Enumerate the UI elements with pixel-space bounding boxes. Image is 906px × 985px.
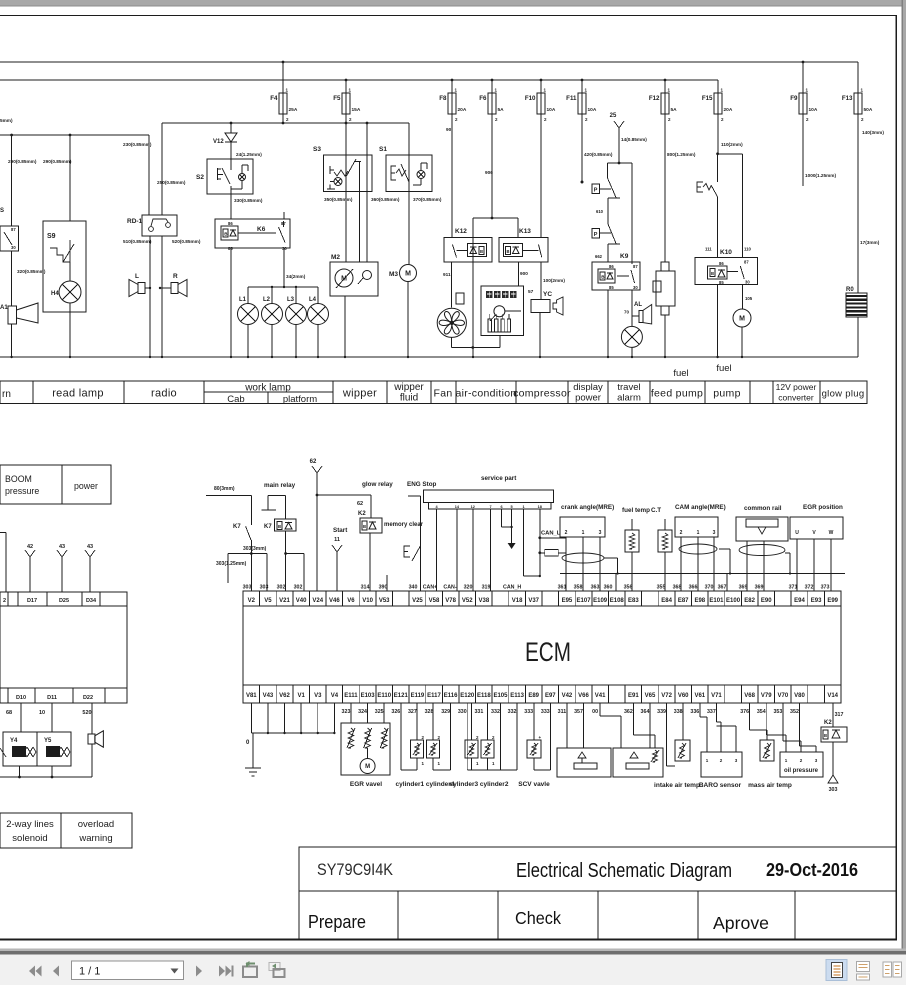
svg-text:362: 362 bbox=[624, 709, 633, 715]
svg-text:K2: K2 bbox=[824, 720, 832, 726]
svg-text:V25: V25 bbox=[412, 598, 423, 604]
svg-text:F8: F8 bbox=[439, 95, 447, 102]
svg-text:324: 324 bbox=[358, 709, 367, 715]
svg-text:V10: V10 bbox=[362, 598, 373, 604]
svg-text:E89: E89 bbox=[528, 693, 539, 699]
svg-text:V37: V37 bbox=[528, 598, 539, 604]
svg-text:E84: E84 bbox=[661, 598, 672, 604]
svg-text:M: M bbox=[739, 316, 745, 323]
svg-text:Electrical Schematic Diagram: Electrical Schematic Diagram bbox=[516, 860, 732, 882]
svg-text:V3: V3 bbox=[314, 693, 322, 699]
svg-text:353: 353 bbox=[773, 709, 782, 715]
svg-text:feed pump: feed pump bbox=[651, 388, 703, 400]
svg-text:34(2mm): 34(2mm) bbox=[286, 274, 306, 279]
svg-text:ECM: ECM bbox=[525, 637, 571, 667]
svg-text:361: 361 bbox=[558, 585, 567, 591]
svg-text:memory clear: memory clear bbox=[384, 522, 424, 528]
svg-text:5mm): 5mm) bbox=[0, 118, 13, 123]
svg-text:SCV vavle: SCV vavle bbox=[518, 781, 550, 788]
svg-text:oil pressure: oil pressure bbox=[784, 768, 819, 774]
svg-text:radio: radio bbox=[151, 388, 177, 400]
svg-text:42: 42 bbox=[27, 544, 33, 550]
svg-text:S1: S1 bbox=[379, 146, 387, 153]
svg-text:332: 332 bbox=[508, 709, 517, 715]
svg-text:M3: M3 bbox=[389, 271, 398, 278]
svg-text:V71: V71 bbox=[711, 693, 722, 699]
svg-text:cylinder3 cylinder2: cylinder3 cylinder2 bbox=[450, 781, 509, 788]
svg-text:pump: pump bbox=[713, 388, 740, 400]
svg-text:11: 11 bbox=[334, 537, 340, 543]
svg-text:E82: E82 bbox=[744, 598, 755, 604]
svg-text:1: 1 bbox=[582, 530, 585, 536]
svg-text:V60: V60 bbox=[678, 693, 689, 699]
svg-text:AL: AL bbox=[634, 302, 642, 308]
svg-text:314: 314 bbox=[361, 585, 370, 591]
svg-text:Start: Start bbox=[333, 527, 348, 534]
svg-text:358: 358 bbox=[574, 585, 583, 591]
svg-text:crank angle(MRE): crank angle(MRE) bbox=[561, 504, 614, 511]
svg-text:311: 311 bbox=[558, 709, 567, 715]
svg-text:CAN-: CAN- bbox=[443, 585, 456, 591]
svg-text:K7: K7 bbox=[233, 524, 241, 530]
svg-text:80(3mm): 80(3mm) bbox=[214, 486, 235, 492]
svg-text:S3: S3 bbox=[313, 146, 321, 153]
svg-text:319: 319 bbox=[482, 585, 491, 591]
svg-text:compressor: compressor bbox=[513, 388, 571, 400]
svg-text:converter: converter bbox=[778, 393, 814, 403]
svg-text:302: 302 bbox=[277, 585, 286, 591]
svg-text:CAN_L: CAN_L bbox=[541, 531, 561, 537]
svg-text:370(0.85mm): 370(0.85mm) bbox=[413, 197, 442, 202]
svg-text:339: 339 bbox=[657, 709, 666, 715]
svg-text:V4: V4 bbox=[331, 693, 339, 699]
svg-text:E97: E97 bbox=[545, 693, 556, 699]
svg-text:R: R bbox=[173, 273, 178, 280]
svg-text:360: 360 bbox=[604, 585, 613, 591]
svg-text:V58: V58 bbox=[429, 598, 440, 604]
svg-text:pressure: pressure bbox=[5, 486, 39, 496]
svg-text:70: 70 bbox=[624, 310, 630, 315]
svg-text:E100: E100 bbox=[726, 598, 741, 604]
svg-text:336: 336 bbox=[690, 709, 699, 715]
svg-text:+: + bbox=[539, 735, 542, 740]
svg-text:V70: V70 bbox=[778, 693, 789, 699]
svg-text:E117: E117 bbox=[427, 693, 441, 699]
svg-text:372: 372 bbox=[805, 585, 814, 591]
svg-text:ENG Stop: ENG Stop bbox=[407, 481, 437, 488]
svg-text:610: 610 bbox=[596, 209, 604, 214]
svg-text:air-condition: air-condition bbox=[455, 388, 516, 400]
svg-text:328: 328 bbox=[425, 709, 434, 715]
svg-text:V21: V21 bbox=[279, 598, 290, 604]
svg-text:12V power: 12V power bbox=[776, 382, 817, 392]
svg-text:E87: E87 bbox=[678, 598, 689, 604]
svg-text:V12: V12 bbox=[213, 139, 224, 145]
svg-text:111: 111 bbox=[705, 247, 712, 252]
svg-text:355: 355 bbox=[657, 585, 666, 591]
svg-text:25: 25 bbox=[610, 113, 617, 119]
svg-text:K6: K6 bbox=[257, 226, 266, 233]
svg-text:2: 2 bbox=[565, 530, 568, 536]
svg-text:E116: E116 bbox=[444, 693, 458, 699]
svg-text:F13: F13 bbox=[842, 95, 853, 102]
svg-text:7: 7 bbox=[490, 505, 492, 509]
svg-text:D11: D11 bbox=[47, 695, 57, 701]
svg-text:F11: F11 bbox=[566, 95, 577, 102]
svg-text:85: 85 bbox=[609, 285, 614, 290]
svg-text:P: P bbox=[594, 232, 598, 238]
svg-text:800(1.25mm): 800(1.25mm) bbox=[667, 152, 696, 157]
svg-text:303: 303 bbox=[260, 585, 269, 591]
svg-text:V43: V43 bbox=[263, 693, 274, 699]
svg-text:00: 00 bbox=[592, 709, 598, 715]
svg-text:M2: M2 bbox=[331, 254, 340, 261]
svg-text:29-Oct-2016: 29-Oct-2016 bbox=[766, 860, 858, 880]
svg-text:15A: 15A bbox=[352, 107, 361, 113]
svg-text:327: 327 bbox=[408, 709, 417, 715]
svg-text:E113: E113 bbox=[510, 693, 524, 699]
svg-text:CAN_H: CAN_H bbox=[503, 585, 521, 591]
svg-text:power: power bbox=[575, 393, 601, 404]
svg-text:Y5: Y5 bbox=[44, 738, 52, 744]
svg-text:intake air temp: intake air temp bbox=[654, 782, 700, 789]
svg-text:K10: K10 bbox=[720, 249, 732, 256]
svg-text:Check: Check bbox=[515, 908, 561, 928]
svg-text:V14: V14 bbox=[827, 693, 838, 699]
svg-text:V24: V24 bbox=[312, 598, 323, 604]
svg-text:2: 2 bbox=[680, 530, 683, 536]
svg-text:common rail: common rail bbox=[744, 505, 782, 512]
svg-text:V65: V65 bbox=[645, 693, 656, 699]
svg-text:87: 87 bbox=[744, 260, 749, 265]
svg-text:F6: F6 bbox=[479, 95, 487, 102]
svg-text:17(3mm): 17(3mm) bbox=[860, 240, 880, 245]
svg-text:E94: E94 bbox=[794, 598, 805, 604]
svg-text:10A: 10A bbox=[547, 107, 556, 113]
svg-text:E95: E95 bbox=[562, 598, 573, 604]
svg-text:86: 86 bbox=[609, 264, 614, 269]
svg-text:E91: E91 bbox=[628, 693, 639, 699]
svg-text:V52: V52 bbox=[462, 598, 473, 604]
svg-text:E103: E103 bbox=[361, 693, 376, 699]
svg-text:320: 320 bbox=[464, 585, 473, 591]
svg-text:B: B bbox=[278, 524, 281, 529]
svg-text:S9: S9 bbox=[47, 233, 56, 240]
svg-text:RD-1: RD-1 bbox=[127, 218, 143, 225]
svg-text:390: 390 bbox=[379, 585, 388, 591]
svg-text:L2: L2 bbox=[263, 297, 271, 303]
svg-text:360(0.85mm): 360(0.85mm) bbox=[371, 197, 400, 202]
svg-text:5A: 5A bbox=[671, 107, 678, 113]
svg-text:D10: D10 bbox=[16, 695, 26, 701]
svg-text:900: 900 bbox=[520, 271, 528, 276]
svg-text:B: B bbox=[507, 249, 510, 254]
svg-text:350(0.85mm): 350(0.85mm) bbox=[324, 197, 353, 202]
svg-text:14(0.85mm): 14(0.85mm) bbox=[621, 137, 647, 142]
svg-text:368: 368 bbox=[673, 585, 682, 591]
svg-text:K2: K2 bbox=[358, 511, 366, 517]
svg-text:43: 43 bbox=[87, 544, 93, 550]
svg-text:D34: D34 bbox=[86, 598, 97, 604]
svg-text:363: 363 bbox=[591, 585, 600, 591]
svg-text:wipper: wipper bbox=[393, 382, 424, 393]
svg-text:alarm: alarm bbox=[617, 393, 641, 404]
svg-text:A1: A1 bbox=[0, 305, 8, 311]
svg-text:M: M bbox=[405, 271, 411, 278]
svg-text:662: 662 bbox=[595, 254, 603, 259]
svg-text:62: 62 bbox=[310, 459, 317, 465]
svg-text:140(3mm): 140(3mm) bbox=[862, 130, 884, 135]
svg-text:Fan: Fan bbox=[434, 388, 453, 400]
svg-text:V72: V72 bbox=[661, 693, 672, 699]
svg-text:50A: 50A bbox=[864, 107, 873, 113]
svg-text:F9: F9 bbox=[790, 95, 798, 102]
svg-text:L4: L4 bbox=[309, 297, 317, 303]
svg-text:V68: V68 bbox=[744, 693, 755, 699]
svg-text:S2: S2 bbox=[196, 174, 204, 181]
svg-text:travel: travel bbox=[617, 382, 640, 393]
svg-text:W: W bbox=[829, 530, 834, 536]
svg-text:354: 354 bbox=[757, 709, 766, 715]
svg-text:K12: K12 bbox=[455, 228, 467, 235]
svg-text:wipper: wipper bbox=[342, 388, 377, 400]
svg-text:P: P bbox=[594, 188, 598, 194]
svg-text:V38: V38 bbox=[479, 598, 490, 604]
svg-text:L1: L1 bbox=[239, 297, 247, 303]
svg-text:87: 87 bbox=[11, 227, 16, 232]
svg-text:V53: V53 bbox=[379, 598, 390, 604]
svg-text:10: 10 bbox=[39, 710, 45, 716]
svg-text:V62: V62 bbox=[279, 693, 290, 699]
svg-text:320(0.85mm): 320(0.85mm) bbox=[17, 269, 46, 274]
svg-text:333: 333 bbox=[524, 709, 533, 715]
svg-text:E90: E90 bbox=[761, 598, 772, 604]
svg-text:E111: E111 bbox=[344, 693, 358, 699]
svg-text:V80: V80 bbox=[794, 693, 805, 699]
svg-text:906: 906 bbox=[485, 170, 493, 175]
svg-text:V81: V81 bbox=[246, 693, 257, 699]
svg-text:rn: rn bbox=[2, 389, 11, 400]
svg-text:333: 333 bbox=[541, 709, 550, 715]
svg-text:glow relay: glow relay bbox=[362, 481, 393, 488]
svg-text:250(0.85mm): 250(0.85mm) bbox=[157, 180, 186, 185]
svg-text:57: 57 bbox=[528, 289, 534, 295]
svg-text:BOOM: BOOM bbox=[5, 474, 32, 484]
svg-text:352: 352 bbox=[790, 709, 799, 715]
svg-text:30: 30 bbox=[633, 285, 638, 290]
svg-text:glow plug: glow plug bbox=[822, 389, 865, 400]
svg-text:K13: K13 bbox=[519, 228, 531, 235]
svg-text:6: 6 bbox=[500, 505, 502, 509]
svg-text:420(0.85mm): 420(0.85mm) bbox=[584, 152, 613, 157]
svg-text:376: 376 bbox=[740, 709, 749, 715]
svg-text:E118: E118 bbox=[477, 693, 491, 699]
svg-text:R0: R0 bbox=[846, 287, 854, 293]
svg-text:H4: H4 bbox=[51, 291, 59, 297]
svg-text:510(0.85mm): 510(0.85mm) bbox=[123, 239, 152, 244]
svg-text:371: 371 bbox=[789, 585, 798, 591]
svg-text:M: M bbox=[365, 764, 370, 770]
svg-text:F5: F5 bbox=[333, 95, 341, 102]
svg-text:V2: V2 bbox=[248, 598, 256, 604]
svg-text:work lamp: work lamp bbox=[244, 383, 291, 394]
svg-text:S: S bbox=[0, 208, 4, 214]
svg-text:K7: K7 bbox=[264, 524, 272, 530]
svg-text:86: 86 bbox=[228, 221, 233, 226]
svg-text:364: 364 bbox=[641, 709, 650, 715]
svg-text:F15: F15 bbox=[702, 95, 713, 102]
svg-text:V42: V42 bbox=[562, 693, 573, 699]
svg-text:D22: D22 bbox=[83, 695, 93, 701]
svg-text:90: 90 bbox=[446, 127, 452, 132]
svg-text:V46: V46 bbox=[329, 598, 340, 604]
svg-text:D17: D17 bbox=[27, 598, 37, 604]
svg-text:V40: V40 bbox=[296, 598, 307, 604]
svg-text:fluid: fluid bbox=[400, 393, 418, 404]
svg-text:K9: K9 bbox=[620, 253, 629, 260]
svg-text:1000(1.25mm): 1000(1.25mm) bbox=[805, 173, 836, 178]
svg-text:1: 1 bbox=[522, 505, 524, 509]
svg-text:EGR vavel: EGR vavel bbox=[350, 781, 382, 788]
svg-text:V61: V61 bbox=[694, 693, 705, 699]
svg-text:86: 86 bbox=[719, 261, 724, 266]
svg-text:5A: 5A bbox=[498, 107, 505, 113]
svg-text:290(0.85mm): 290(0.85mm) bbox=[43, 159, 72, 164]
svg-text:E109: E109 bbox=[593, 598, 608, 604]
svg-text:E119: E119 bbox=[411, 693, 425, 699]
svg-text:30: 30 bbox=[282, 246, 287, 251]
svg-text:EGR position: EGR position bbox=[803, 504, 843, 511]
svg-text:43: 43 bbox=[59, 544, 65, 550]
svg-text:3: 3 bbox=[599, 530, 602, 536]
svg-text:303(3mm): 303(3mm) bbox=[243, 546, 267, 552]
svg-text:12: 12 bbox=[471, 505, 475, 509]
svg-text:L3: L3 bbox=[287, 297, 295, 303]
svg-text:F4: F4 bbox=[270, 95, 278, 102]
svg-text:20A: 20A bbox=[724, 107, 733, 113]
svg-text:V41: V41 bbox=[595, 693, 606, 699]
svg-text:E98: E98 bbox=[694, 598, 705, 604]
svg-text:30: 30 bbox=[11, 245, 16, 250]
svg-text:U: U bbox=[795, 530, 799, 536]
svg-text:E108: E108 bbox=[610, 598, 625, 604]
svg-text:303: 303 bbox=[243, 585, 252, 591]
svg-text:B: B bbox=[480, 249, 483, 254]
svg-text:3: 3 bbox=[713, 530, 716, 536]
svg-text:20A: 20A bbox=[458, 107, 467, 113]
svg-text:E99: E99 bbox=[827, 598, 838, 604]
svg-text:CAN+: CAN+ bbox=[423, 585, 438, 591]
svg-text:326: 326 bbox=[391, 709, 400, 715]
svg-text:F12: F12 bbox=[649, 95, 660, 102]
svg-text:303: 303 bbox=[829, 787, 838, 793]
svg-text:fuel temp: fuel temp bbox=[622, 507, 650, 514]
svg-text:325: 325 bbox=[375, 709, 384, 715]
svg-text:329: 329 bbox=[441, 709, 450, 715]
svg-text:CAM angle(MRE): CAM angle(MRE) bbox=[675, 504, 726, 511]
svg-text:369: 369 bbox=[755, 585, 764, 591]
svg-text:read lamp: read lamp bbox=[52, 388, 104, 400]
svg-text:340: 340 bbox=[409, 585, 418, 591]
svg-text:520(0.85mm): 520(0.85mm) bbox=[172, 239, 201, 244]
svg-text:366: 366 bbox=[689, 585, 698, 591]
svg-text:solenoid: solenoid bbox=[12, 833, 47, 844]
svg-text:E105: E105 bbox=[493, 693, 508, 699]
svg-text:367: 367 bbox=[718, 585, 727, 591]
svg-text:68: 68 bbox=[6, 710, 12, 716]
svg-text:10A: 10A bbox=[809, 107, 818, 113]
svg-text:V18: V18 bbox=[512, 598, 523, 604]
svg-text:1 / 1: 1 / 1 bbox=[79, 966, 100, 978]
svg-text:E93: E93 bbox=[811, 598, 822, 604]
svg-text:330: 330 bbox=[458, 709, 467, 715]
svg-text:E83: E83 bbox=[628, 598, 639, 604]
svg-text:100(2mm): 100(2mm) bbox=[543, 278, 565, 283]
svg-text:E110: E110 bbox=[377, 693, 391, 699]
svg-text:110: 110 bbox=[744, 247, 752, 252]
svg-text:85: 85 bbox=[719, 280, 724, 285]
svg-text:302: 302 bbox=[294, 585, 303, 591]
svg-text:YC: YC bbox=[543, 291, 552, 298]
svg-text:cylinder1 cylinder4: cylinder1 cylinder4 bbox=[396, 781, 455, 788]
svg-text:520: 520 bbox=[82, 710, 91, 716]
svg-text:V79: V79 bbox=[761, 693, 772, 699]
svg-text:V5: V5 bbox=[264, 598, 272, 604]
svg-text:5: 5 bbox=[511, 505, 513, 509]
svg-text:overload: overload bbox=[78, 819, 114, 830]
svg-text:E121: E121 bbox=[394, 693, 409, 699]
svg-text:Cab: Cab bbox=[227, 394, 244, 405]
svg-text:911: 911 bbox=[443, 272, 451, 277]
svg-text:337: 337 bbox=[707, 709, 716, 715]
svg-text:E101: E101 bbox=[709, 598, 724, 604]
svg-text:E107: E107 bbox=[577, 598, 592, 604]
svg-text:V1: V1 bbox=[297, 693, 305, 699]
svg-text:373: 373 bbox=[821, 585, 830, 591]
svg-text:105: 105 bbox=[745, 296, 753, 301]
svg-text:Aprove: Aprove bbox=[713, 913, 769, 933]
svg-text:24(1.25mm): 24(1.25mm) bbox=[236, 152, 262, 157]
svg-text:356: 356 bbox=[624, 585, 633, 591]
svg-text:V6: V6 bbox=[347, 598, 355, 604]
svg-text:370: 370 bbox=[705, 585, 714, 591]
svg-text:main relay: main relay bbox=[264, 482, 296, 489]
svg-text:323: 323 bbox=[342, 709, 351, 715]
svg-text:L: L bbox=[135, 273, 139, 280]
svg-text:display: display bbox=[573, 382, 603, 393]
svg-text:10A: 10A bbox=[588, 107, 597, 113]
svg-text:25A: 25A bbox=[289, 107, 298, 113]
svg-text:338: 338 bbox=[674, 709, 683, 715]
svg-text:357: 357 bbox=[574, 709, 583, 715]
svg-text:Prepare: Prepare bbox=[308, 912, 366, 932]
svg-text:F10: F10 bbox=[525, 95, 536, 102]
svg-text:SY79C9I4K: SY79C9I4K bbox=[317, 860, 394, 879]
svg-text:E120: E120 bbox=[460, 693, 475, 699]
svg-text:fuel: fuel bbox=[673, 368, 688, 379]
svg-text:D25: D25 bbox=[59, 598, 69, 604]
svg-text:platform: platform bbox=[283, 394, 317, 405]
svg-text:317: 317 bbox=[835, 712, 844, 718]
svg-text:369: 369 bbox=[739, 585, 748, 591]
svg-text:303(1.25mm): 303(1.25mm) bbox=[216, 561, 247, 567]
svg-text:mass air temp: mass air temp bbox=[748, 782, 792, 789]
svg-text:110(2mm): 110(2mm) bbox=[721, 142, 743, 147]
svg-text:B: B bbox=[363, 524, 366, 529]
svg-text:BARO sensor: BARO sensor bbox=[699, 782, 742, 789]
svg-text:power: power bbox=[74, 481, 98, 491]
svg-text:2: 2 bbox=[3, 598, 6, 604]
